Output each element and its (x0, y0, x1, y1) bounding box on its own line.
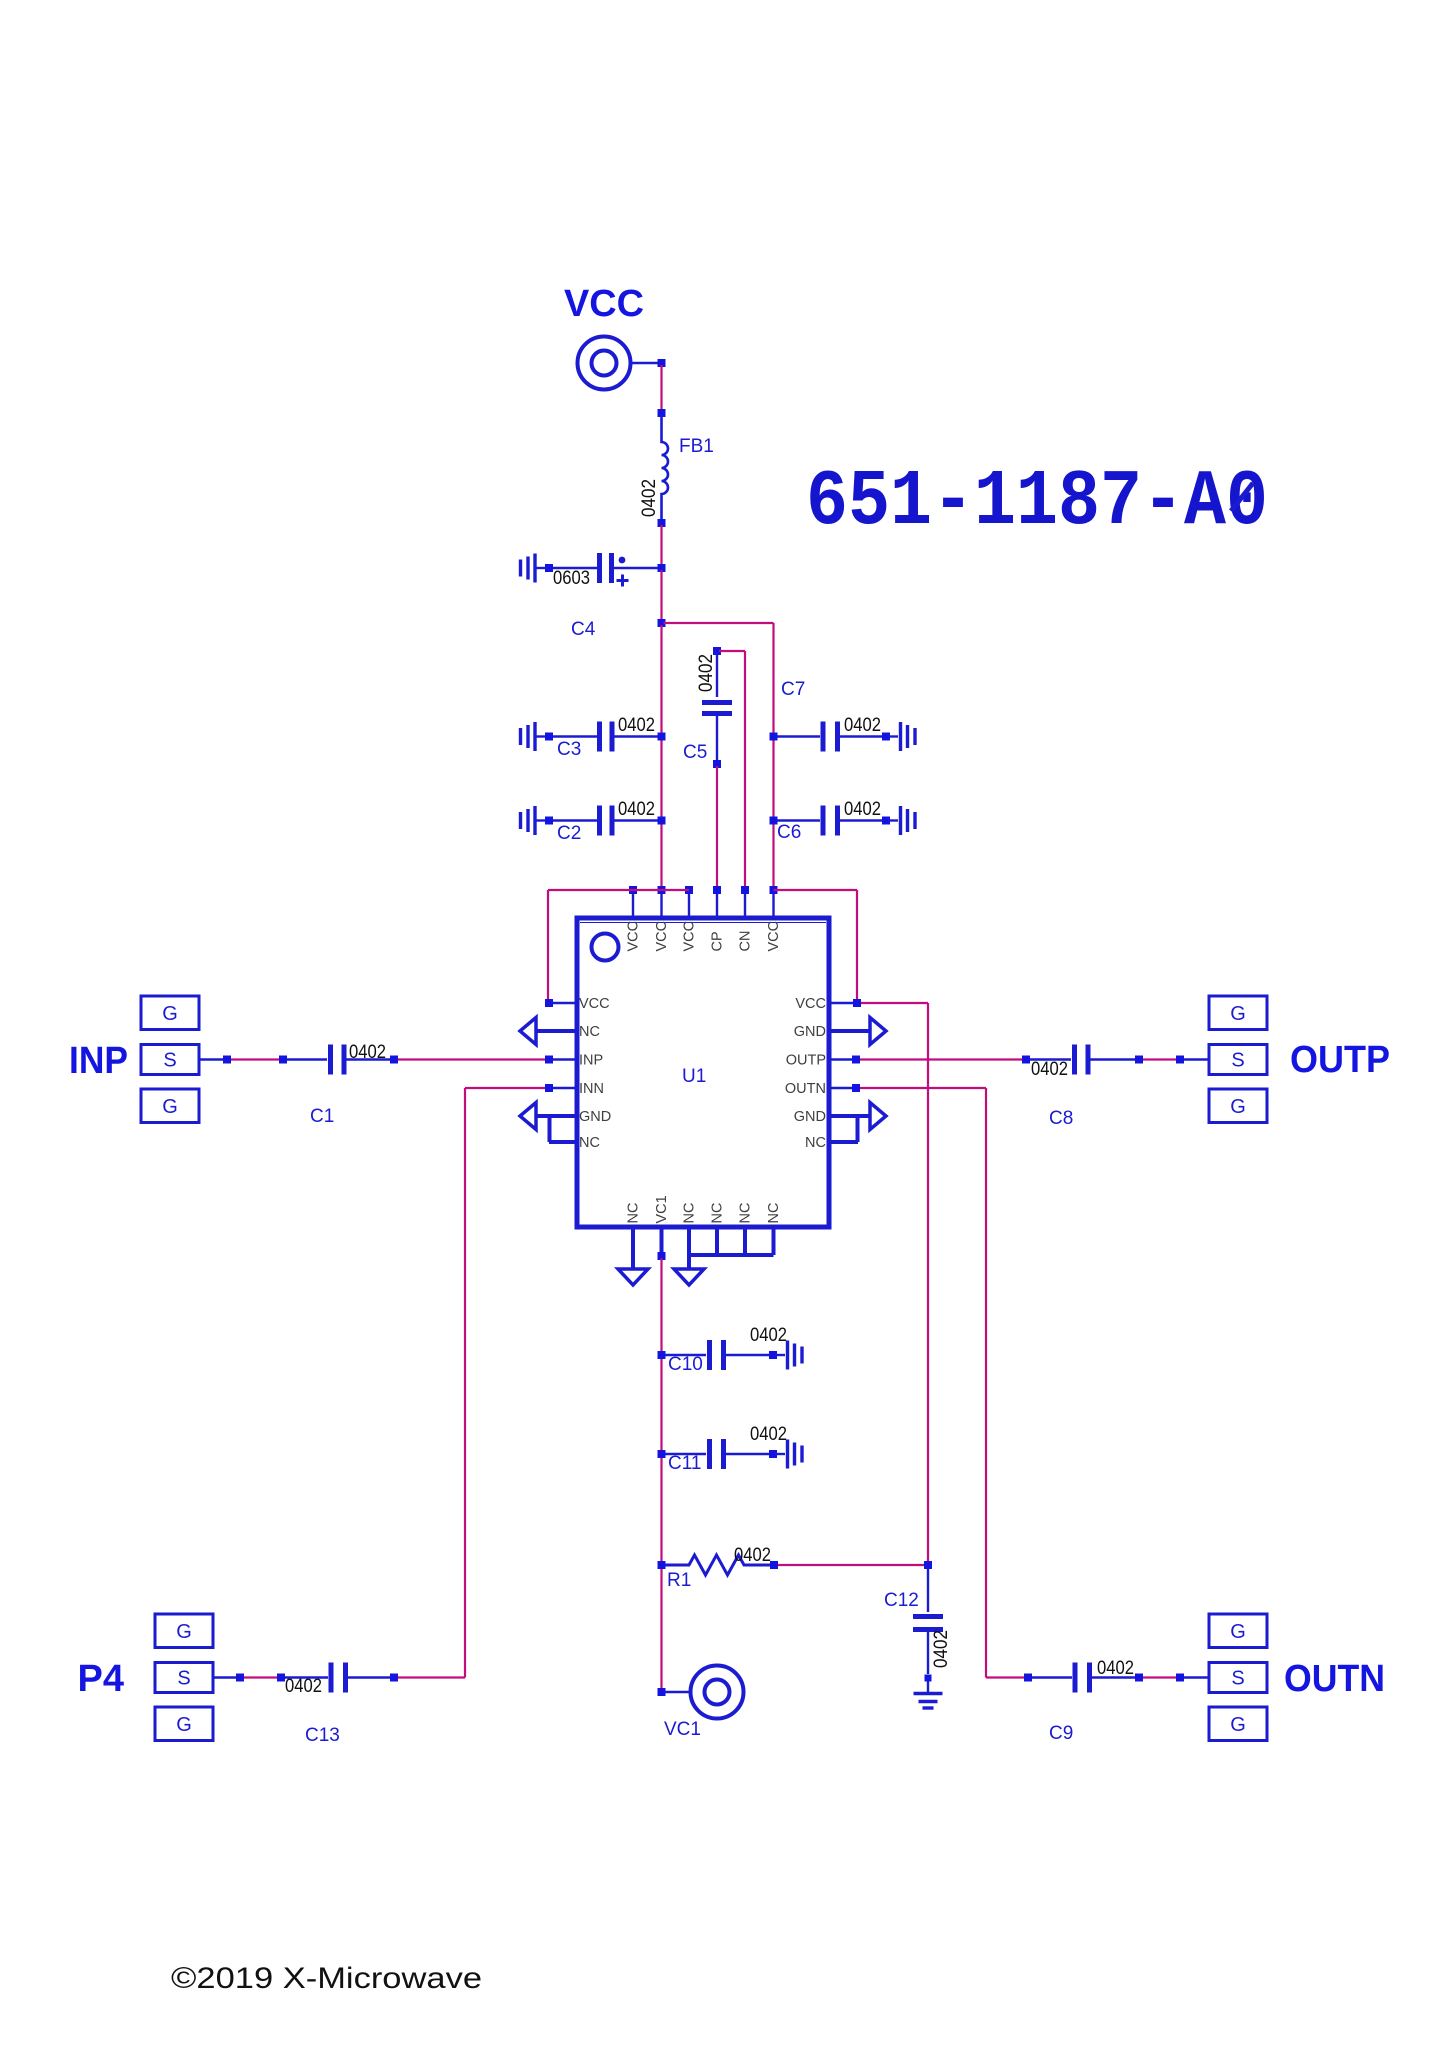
capacitor C5 (716, 653, 718, 697)
wire OUTP pin to C8 (860, 1058, 1022, 1060)
svg-text:G: G (1230, 1621, 1246, 1643)
svg-text:NC: NC (682, 1203, 698, 1224)
wire S pad to C1 (199, 1058, 223, 1060)
capacitor C2 (533, 806, 536, 835)
wire OUTN pin to bottom (860, 1087, 986, 1089)
svg-text:OUTP: OUTP (1290, 1039, 1390, 1081)
svg-text:VCC: VCC (766, 921, 782, 952)
svg-text:0603: 0603 (553, 568, 590, 589)
svg-text:0402: 0402 (750, 1325, 787, 1346)
port P4 S pad (155, 1663, 213, 1693)
svg-text:GND: GND (794, 1109, 826, 1125)
wire C5 top to CN column (719, 650, 745, 652)
svg-text:C7: C7 (781, 679, 805, 700)
capacitor C13 (329, 1663, 334, 1693)
svg-text:G: G (1230, 1714, 1246, 1736)
wire VCC to FB1 (660, 365, 662, 411)
wire R1 to C12 (778, 1564, 924, 1566)
wire C1 to INP pin (398, 1058, 545, 1060)
svg-text:C4: C4 (571, 619, 596, 640)
svg-text:G: G (162, 1096, 178, 1118)
IC top pin VCC stub (660, 892, 662, 920)
junction right VCC pin (853, 999, 861, 1007)
IC top pin VCC stub (688, 892, 690, 920)
junction C3 at rail (658, 733, 666, 741)
port OUTN G pad bottom (1209, 1707, 1267, 1741)
svg-text:FB1: FB1 (679, 436, 714, 457)
svg-text:0402: 0402 (349, 1042, 386, 1063)
svg-text:NC: NC (579, 1135, 600, 1151)
left GND arrow (520, 1103, 536, 1130)
svg-text:C9: C9 (1049, 1723, 1073, 1744)
svg-text:U1: U1 (682, 1066, 706, 1087)
svg-text:0402: 0402 (618, 799, 655, 820)
svg-text:C2: C2 (557, 823, 581, 844)
ground C12 (914, 1692, 943, 1695)
wire C5 bottom to CP pin (716, 766, 718, 888)
svg-text:C10: C10 (668, 1354, 703, 1375)
svg-text:0402: 0402 (618, 715, 655, 736)
svg-text:C8: C8 (1049, 1108, 1073, 1129)
svg-text:INP: INP (579, 1053, 603, 1069)
svg-text:S: S (163, 1050, 176, 1072)
wire VCC top rail left (548, 889, 689, 891)
svg-text:0402: 0402 (639, 479, 660, 517)
svg-text:G: G (176, 1621, 192, 1643)
svg-text:VCC: VCC (579, 996, 610, 1012)
junction OUTP pin (852, 1056, 860, 1064)
svg-text:C12: C12 (884, 1590, 919, 1611)
svg-text:0402: 0402 (931, 1630, 952, 1668)
capacitor C8 (1072, 1045, 1077, 1075)
wire C7 column down (772, 623, 774, 888)
svg-text:S: S (177, 1668, 190, 1690)
ground arrow bottom left (618, 1269, 648, 1285)
svg-text:VCC: VCC (564, 283, 644, 325)
port OUTP S pad (1209, 1045, 1267, 1075)
capacitor C9 (1073, 1663, 1078, 1693)
port OUTP G pad top (1209, 996, 1267, 1030)
junction VCC branch node (658, 619, 666, 627)
svg-text:GND: GND (794, 1024, 826, 1040)
svg-text:C13: C13 (305, 1725, 340, 1746)
svg-text:VCC: VCC (626, 921, 642, 952)
svg-text:C11: C11 (668, 1453, 701, 1474)
junction VC1 (658, 1688, 666, 1696)
svg-text:S: S (1231, 1668, 1244, 1690)
svg-text:OUTN: OUTN (1284, 1658, 1385, 1700)
wire rail down to IC (660, 625, 662, 888)
port INP G pad bottom (141, 1089, 199, 1123)
svg-text:0402: 0402 (1031, 1059, 1068, 1080)
svg-text:NC: NC (766, 1203, 782, 1224)
junction FB1 bottom (658, 519, 666, 527)
capacitor right of C7 node (770, 733, 778, 741)
svg-text:651-1187-A0: 651-1187-A0 (806, 457, 1268, 547)
svg-text:GND: GND (579, 1109, 611, 1125)
svg-text:CP: CP (710, 931, 726, 951)
capacitor C10 (658, 1351, 666, 1359)
wire rail C4 to branch node (660, 570, 662, 621)
IC bottom NC bus (687, 1225, 691, 1269)
svg-text:NC: NC (710, 1203, 726, 1224)
svg-text:C6: C6 (777, 822, 801, 843)
capacitor C11 (658, 1450, 666, 1458)
svg-text:P4: P4 (78, 1658, 124, 1700)
port INP S pad (141, 1045, 199, 1075)
junction INN pin (545, 1084, 553, 1092)
wire rail to right VCC pin (856, 890, 858, 1001)
connector VC1 circle (691, 1666, 744, 1719)
wire right VCC to C12 column (861, 1002, 928, 1004)
junction C8 right (1135, 1056, 1143, 1064)
wire S pad to C13 (213, 1676, 236, 1678)
wire rail to left VCC pin (547, 890, 549, 1001)
junction C5 top (713, 647, 721, 655)
IC top pin VCC stub (632, 892, 634, 920)
capacitor C1 (328, 1045, 333, 1075)
port OUTN S pad (1209, 1663, 1267, 1693)
capacitor C3 (533, 722, 536, 751)
svg-text:INP: INP (69, 1040, 128, 1082)
IC top pin CP stub (716, 892, 718, 920)
svg-text:R1: R1 (667, 1570, 691, 1591)
svg-text:G: G (176, 1714, 192, 1736)
svg-text:OUTN: OUTN (785, 1081, 826, 1097)
svg-text:G: G (162, 1003, 178, 1025)
junction C13 right (390, 1674, 398, 1682)
svg-text:VC1: VC1 (654, 1195, 670, 1223)
svg-text:VCC: VCC (654, 921, 670, 952)
junction VCC rail top (658, 359, 666, 367)
svg-text:0402: 0402 (844, 799, 881, 820)
power symbol VCC circle (578, 337, 631, 390)
svg-text:©2019 X-Microwave: ©2019 X-Microwave (171, 1962, 482, 1995)
IC U1 body (577, 918, 829, 1227)
junction C1 right (390, 1056, 398, 1064)
svg-text:INN: INN (579, 1081, 604, 1097)
svg-text:CN: CN (738, 931, 754, 952)
capacitor C4 0603 polarized (533, 554, 536, 583)
right GND arrow (870, 1018, 886, 1045)
wire VCC circle to rail (631, 362, 658, 364)
svg-text:NC: NC (738, 1203, 754, 1224)
right NC elbow to GND (827, 1140, 858, 1144)
IC U1 pin-1 indicator circle (592, 934, 619, 961)
junction left VCC pin (545, 999, 553, 1007)
svg-text:VC1: VC1 (664, 1719, 701, 1740)
resistor R1 (658, 1561, 666, 1569)
svg-text:OUTP: OUTP (786, 1053, 826, 1069)
svg-text:NC: NC (579, 1024, 600, 1040)
junction C2 at rail (658, 817, 666, 825)
svg-text:G: G (1230, 1003, 1246, 1025)
port P4 G pad bottom (155, 1707, 213, 1741)
left NC arrow (520, 1018, 536, 1045)
svg-text:G: G (1230, 1096, 1246, 1118)
svg-text:0402: 0402 (844, 715, 881, 736)
capacitor C6 (770, 817, 778, 825)
junction OUTN pin (852, 1084, 860, 1092)
junction C9 right (1135, 1674, 1143, 1682)
svg-text:NC: NC (626, 1203, 642, 1224)
svg-text:S: S (1231, 1050, 1244, 1072)
IC top pin CN stub (744, 892, 746, 920)
junction INP pin (545, 1056, 553, 1064)
wire VCC top rail right (774, 889, 858, 891)
inductor FB1 (662, 415, 669, 521)
svg-text:VCC: VCC (795, 996, 826, 1012)
svg-text:VCC: VCC (682, 921, 698, 952)
IC bottom VC1 stub (660, 1225, 664, 1252)
svg-text:0402: 0402 (1097, 1658, 1134, 1679)
wire VC1 net down (660, 1258, 662, 1688)
wire C13 to INN column (398, 1676, 465, 1678)
junction C9 left (1024, 1674, 1032, 1682)
svg-text:NC: NC (805, 1135, 826, 1151)
port OUTN G pad top (1209, 1614, 1267, 1648)
IC bottom NC pin1 stub to ground (631, 1225, 635, 1269)
wire INN to P4 column (465, 1087, 545, 1089)
svg-text:0402: 0402 (285, 1676, 322, 1697)
svg-text:0402: 0402 (696, 654, 717, 692)
port P4 G pad top (155, 1614, 213, 1648)
ground arrow bottom right (674, 1269, 704, 1285)
svg-text:C3: C3 (557, 739, 581, 760)
right GND arrow lower (870, 1103, 886, 1130)
wire FB1 to C4 node (660, 525, 662, 566)
left NC elbow to GND (549, 1140, 579, 1144)
junction C4 at rail (658, 564, 666, 572)
wire branch to C7 column (664, 622, 774, 624)
port INP G pad top (141, 996, 199, 1030)
wire to VC1 circle (666, 1691, 692, 1693)
port OUTP G pad bottom (1209, 1089, 1267, 1123)
capacitor C12 (924, 1561, 932, 1569)
svg-text:C1: C1 (310, 1106, 334, 1127)
svg-text:0402: 0402 (750, 1424, 787, 1445)
junction C5 bottom (713, 760, 721, 768)
IC top pin VCC stub (772, 892, 774, 920)
svg-text:0402: 0402 (734, 1545, 771, 1566)
svg-text:C5: C5 (683, 742, 707, 763)
junction FB1 top (658, 409, 666, 417)
